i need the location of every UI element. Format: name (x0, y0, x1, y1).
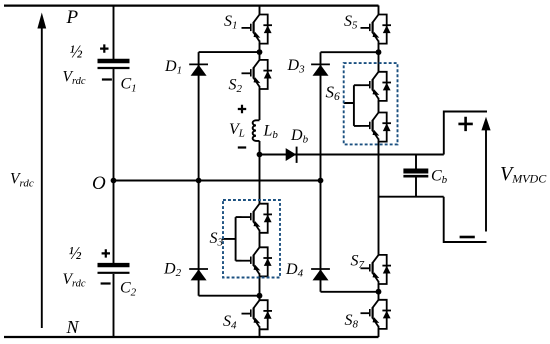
arrow Vrdc input annotation (37, 13, 46, 329)
wire D4 bottom to S7-S8 node (321, 291, 379, 293)
wire Cb bottom stub (415, 177, 417, 197)
svg-text:VL: VL (229, 121, 245, 140)
junction dot S1-S2 (257, 49, 263, 55)
svg-text:S6: S6 (326, 83, 341, 104)
plus sign C2 (102, 249, 110, 257)
wire Db output line (260, 154, 444, 156)
svg-text:D1: D1 (164, 58, 182, 77)
svg-text:P: P (66, 7, 79, 28)
minus sign output (460, 236, 475, 239)
diode D1 (189, 64, 208, 75)
transistor S7 (361, 255, 392, 285)
diode D2 (189, 269, 208, 280)
wire S7 to S8 (378, 284, 380, 300)
svg-text:S1: S1 (224, 13, 238, 32)
transistor S4 (242, 300, 273, 330)
wire between S6 cells (378, 101, 380, 113)
box S6 dashed (344, 63, 398, 144)
svg-text:D3: D3 (287, 57, 306, 76)
plus sign VL (238, 105, 246, 113)
wire right leg stub from P rail (378, 5, 380, 14)
junction dot Lb-Db node (257, 152, 263, 158)
wire left bus O to C2 (113, 181, 115, 264)
wire D3-D4 branch (320, 52, 322, 292)
wire S5 emitter to S6 (378, 43, 380, 71)
wire S3 to S4 (259, 276, 261, 300)
wire S8 to N rail (378, 329, 380, 337)
svg-text:S4: S4 (223, 313, 237, 332)
svg-text:S8: S8 (345, 312, 359, 331)
capacitor Cb (403, 171, 428, 176)
transistor S2 (242, 60, 273, 90)
capacitor C2 (98, 265, 130, 273)
svg-text:VMVDC: VMVDC (500, 163, 547, 186)
wire left bus C2 to N (113, 274, 115, 337)
svg-text:D4: D4 (285, 261, 304, 280)
svg-text:S2: S2 (229, 77, 243, 96)
svg-text:½: ½ (69, 243, 82, 263)
diode Db (286, 147, 297, 163)
wire Cb top stub (415, 155, 417, 169)
wire output bracket top (444, 112, 487, 155)
wire middle rail from O (114, 180, 321, 182)
junction dot S5-S6 (376, 49, 382, 55)
wire bottom rail N (4, 336, 379, 338)
minus sign VL (238, 146, 246, 148)
wire S1 emitter to S2 collector (259, 43, 261, 60)
transistor S5 (361, 15, 392, 45)
wire gate bus S6 (344, 85, 361, 126)
wire S2 to Lb (259, 89, 261, 120)
svg-text:½: ½ (70, 42, 83, 62)
svg-text:C1: C1 (121, 76, 137, 95)
capacitor C1 (98, 61, 130, 68)
wire D3 top to S5-S6 node (321, 51, 379, 53)
svg-text:C2: C2 (120, 280, 137, 299)
node O junction dot (111, 178, 117, 184)
wire output bracket bottom (444, 197, 487, 242)
junction dot S7-S8 (376, 289, 382, 295)
diode D3 (311, 64, 330, 75)
svg-text:Db: Db (290, 127, 309, 146)
box S3 dashed (223, 200, 280, 278)
arrow VMVDC annotation (481, 117, 490, 232)
junction dot D3-D4 branch at middle rail (318, 178, 324, 184)
plus sign C1 (100, 44, 108, 52)
wire left bus P to C1 (113, 5, 115, 59)
svg-text:N: N (66, 317, 80, 337)
transistor S3 lower IGBT (242, 247, 273, 277)
svg-text:S3: S3 (210, 230, 224, 249)
svg-text:Lb: Lb (263, 123, 279, 142)
svg-text:Vrdc: Vrdc (10, 171, 34, 190)
minus sign C2 (101, 282, 111, 284)
svg-text:Vrdc: Vrdc (63, 271, 86, 290)
wire D1 top to S1-S2 node (199, 51, 260, 53)
wire left bus C1 to O (113, 69, 115, 181)
wire main branch stub from P rail (259, 5, 261, 14)
wire gate bus S3 (222, 217, 242, 261)
minus sign C1 (102, 78, 112, 80)
transistor S8 (361, 300, 392, 330)
junction dot S3-S4 node (257, 293, 263, 299)
wire between S3 cells (259, 233, 261, 248)
svg-text:D2: D2 (163, 261, 182, 280)
svg-text:O: O (92, 173, 106, 194)
wire D1-D2 branch lower (198, 181, 200, 296)
wire S6 to S7 (378, 141, 380, 255)
wire Lb to boost node (259, 141, 261, 155)
svg-text:S5: S5 (344, 13, 358, 32)
junction dot D1 at middle rail (196, 178, 202, 184)
wire S4 to N rail (259, 329, 261, 337)
wire top rail P (4, 4, 379, 6)
wire D2 bottom to S3-S4 node (199, 295, 260, 297)
diode D4 (311, 269, 330, 280)
wire output negative from leg (379, 196, 444, 198)
plus sign output (458, 117, 472, 131)
transistor S6 upper IGBT (361, 72, 392, 102)
wire boost node down to S3 (259, 155, 261, 204)
transistor S3 upper IGBT (242, 204, 273, 234)
wire D1-D2 branch upper (198, 52, 200, 180)
svg-text:S7: S7 (351, 253, 365, 272)
svg-text:Vrdc: Vrdc (63, 68, 86, 87)
inductor Lb (253, 120, 260, 141)
svg-text:Cb: Cb (431, 168, 448, 187)
transistor S6 lower IGBT (361, 113, 392, 143)
transistor S1 (242, 15, 273, 45)
